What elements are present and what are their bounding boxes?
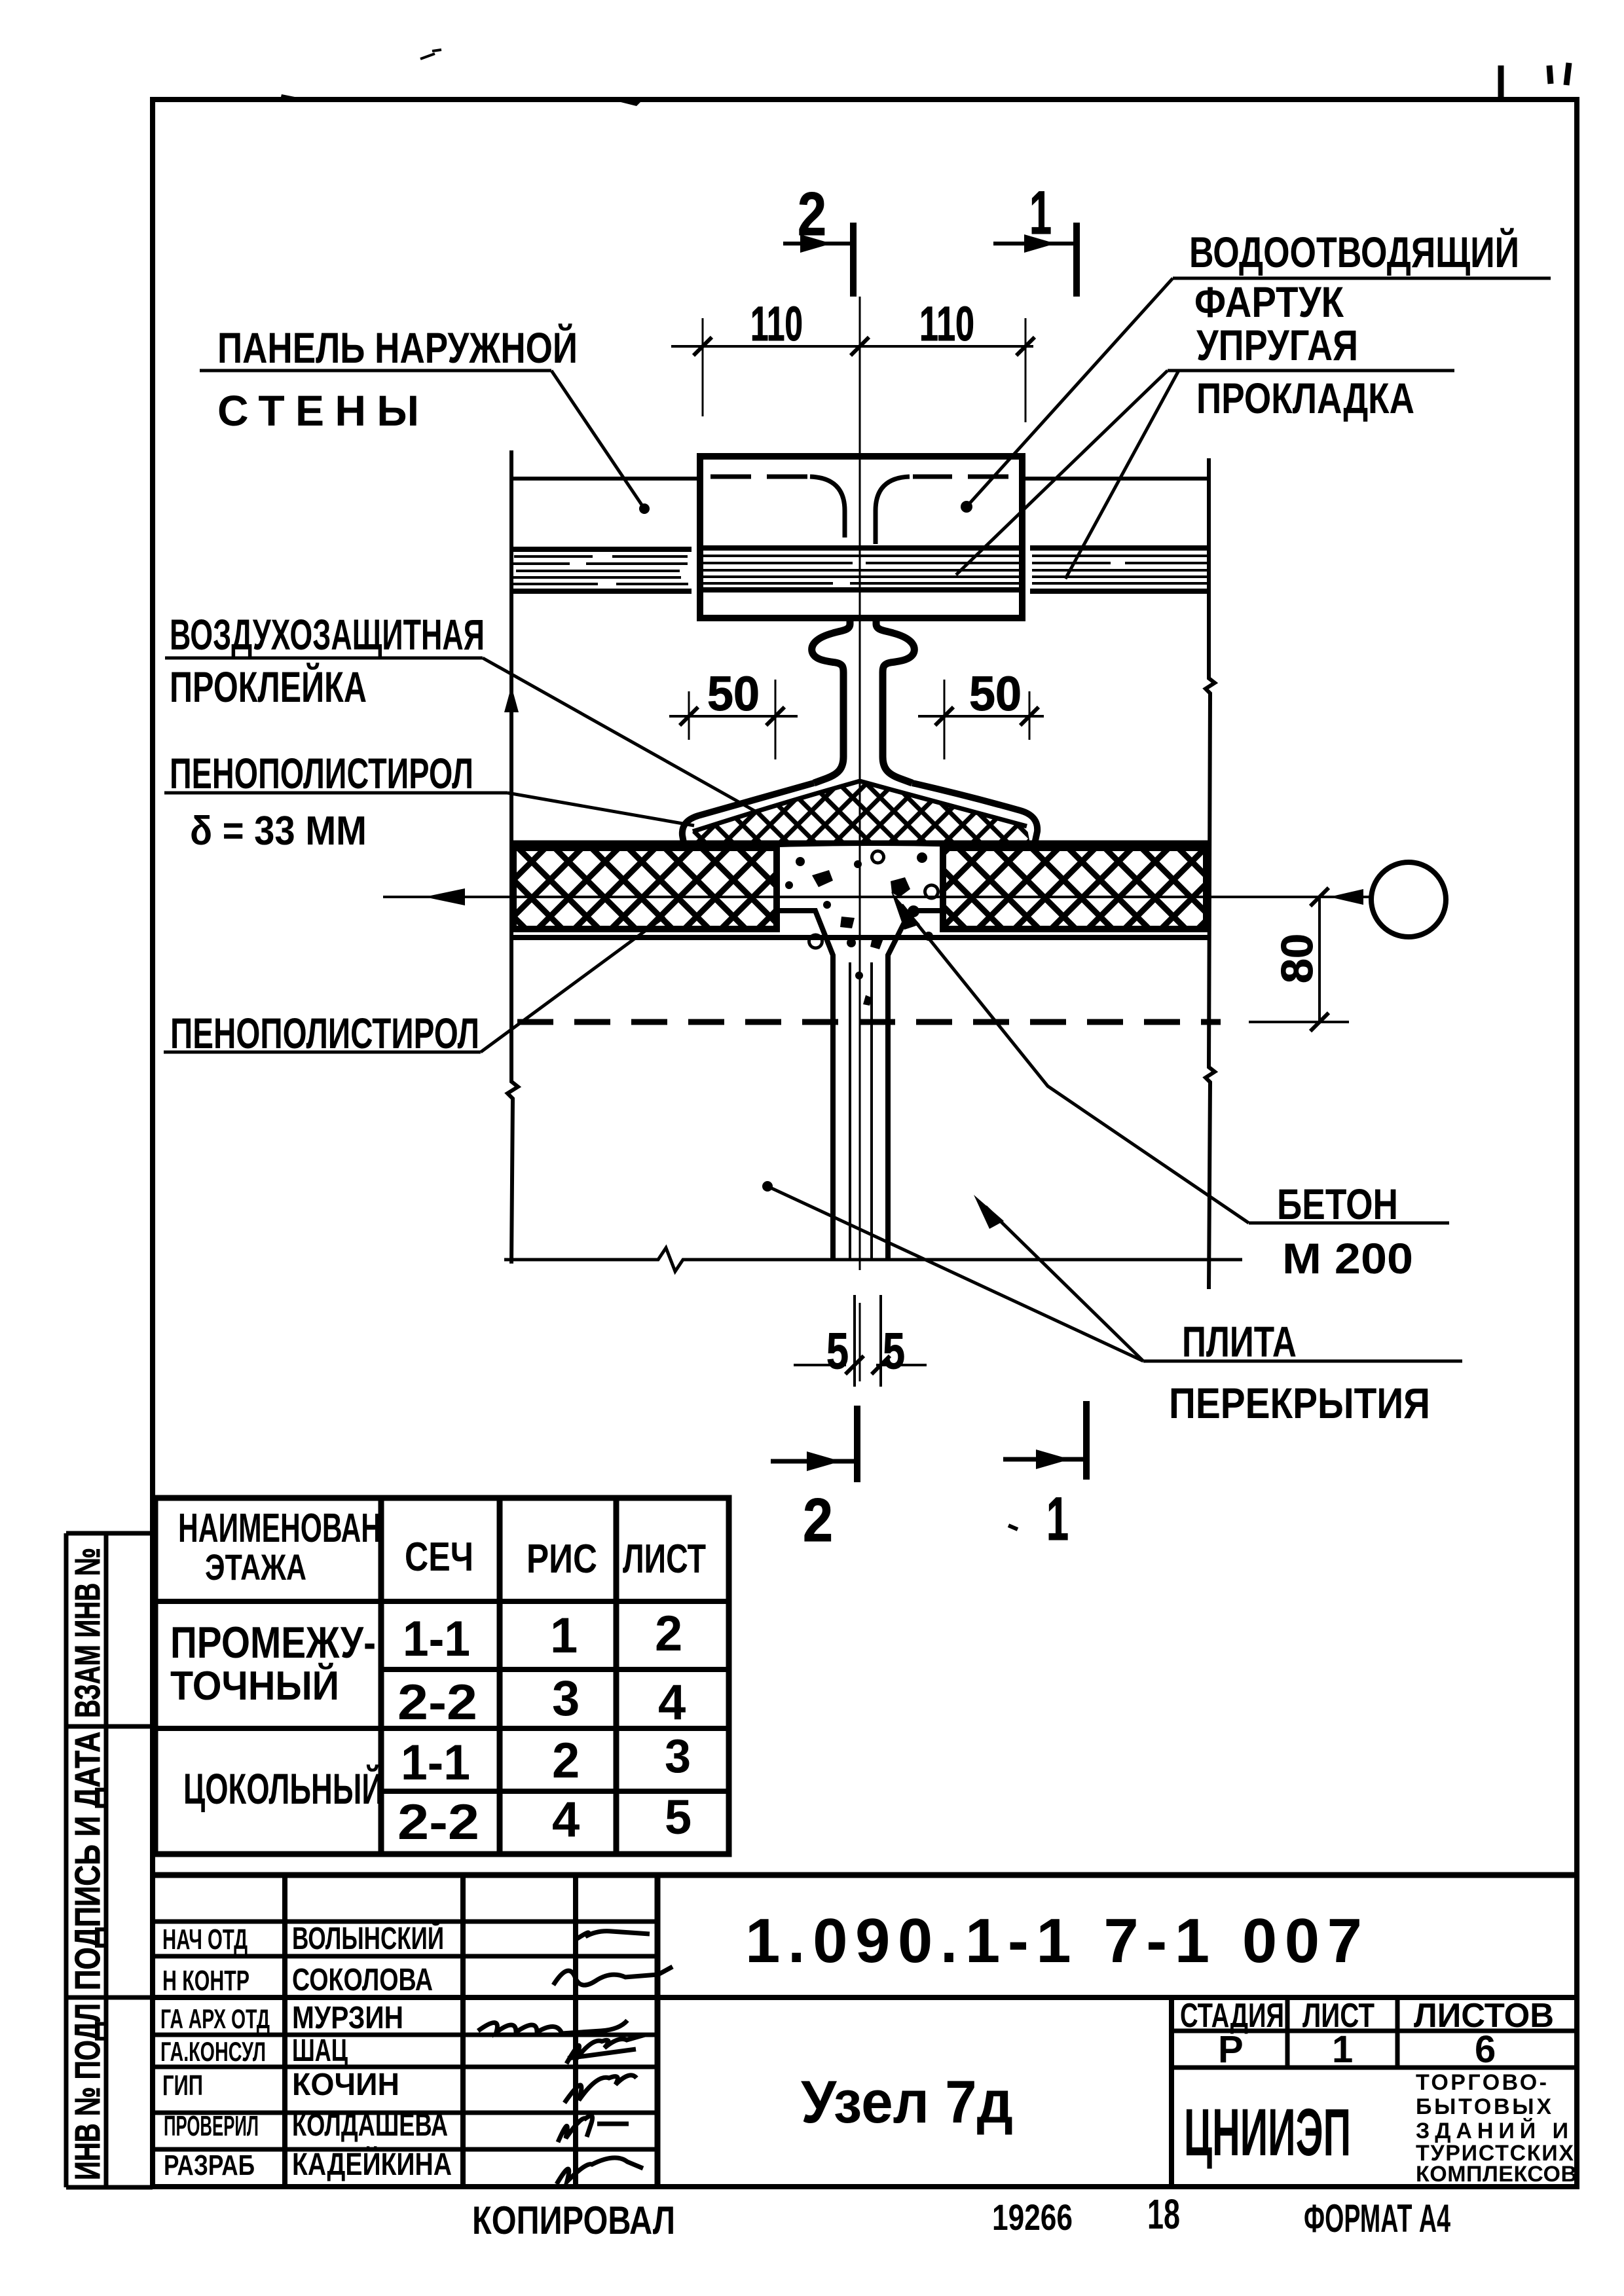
svg-text:3: 3 — [665, 1730, 691, 1783]
section mark 1 bottom — [1083, 1401, 1090, 1480]
svg-text:2: 2 — [803, 1485, 833, 1554]
signatures — [478, 1931, 673, 2184]
svg-text:1-1: 1-1 — [401, 1735, 470, 1791]
svg-text:50: 50 — [707, 666, 760, 721]
label: упругая прокладка — [956, 321, 1454, 579]
label: водоотводящий фартук — [961, 227, 1551, 513]
insulation band bottom line — [511, 935, 1209, 940]
small arrow on panel edge — [504, 686, 519, 712]
svg-text:КОМПЛЕКСОВ: КОМПЛЕКСОВ — [1416, 2162, 1577, 2187]
svg-text:ЦОКОЛЬНЫЙ: ЦОКОЛЬНЫЙ — [183, 1764, 383, 1813]
svg-text:ВОДООТВОДЯЩИЙ: ВОДООТВОДЯЩИЙ — [1189, 227, 1519, 276]
concrete funnel right — [888, 911, 943, 1260]
polystyrene wedge hatched body — [688, 781, 1031, 848]
svg-text:2-2: 2-2 — [397, 1795, 479, 1850]
svg-text:ФОРМАТ А4: ФОРМАТ А4 — [1304, 2196, 1450, 2240]
svg-text:4: 4 — [658, 1675, 686, 1730]
reference circle — [1371, 862, 1446, 937]
table — [155, 1498, 729, 1854]
section mark 2 top — [850, 223, 857, 297]
svg-text:ПОДПИСЬ И ДАТА: ПОДПИСЬ И ДАТА — [68, 1732, 107, 1990]
water apron box — [700, 456, 1022, 618]
top line of wall panels — [511, 477, 700, 481]
sealing gland bulb and stem — [812, 619, 850, 783]
svg-text:18: 18 — [1147, 2191, 1180, 2238]
title block outer top line — [153, 1872, 1577, 1878]
ink blotch on top border — [216, 94, 301, 102]
svg-text:Узел 7д: Узел 7д — [801, 2069, 1013, 2136]
svg-text:ВЗАМ ИНВ №: ВЗАМ ИНВ № — [68, 1548, 107, 1718]
apron fold J-curve left — [810, 477, 845, 538]
svg-text:110: 110 — [919, 297, 974, 351]
air-seal sheet inner line — [693, 781, 1027, 831]
hidden slab dashed line — [517, 1019, 1221, 1025]
svg-text:ПРОВЕРИЛ: ПРОВЕРИЛ — [164, 2110, 259, 2142]
concrete funnel left — [777, 911, 833, 1260]
svg-text:1: 1 — [550, 1608, 578, 1664]
svg-text:ТОЧНЫЙ: ТОЧНЫЙ — [170, 1663, 339, 1709]
wall panel right edge — [1206, 458, 1215, 1289]
right polystyrene block — [943, 848, 1206, 929]
elastic gasket band middle segment — [700, 548, 1022, 590]
svg-text:РАЗРАБ: РАЗРАБ — [164, 2149, 255, 2181]
left polystyrene block — [513, 848, 777, 929]
svg-text:ГИП: ГИП — [162, 2069, 203, 2102]
svg-text:БЫТОВЫХ: БЫТОВЫХ — [1416, 2094, 1551, 2119]
svg-text:1: 1 — [1029, 178, 1052, 247]
svg-text:РИС: РИС — [526, 1537, 597, 1582]
svg-text:1-1: 1-1 — [403, 1611, 470, 1667]
svg-text:НАИМЕНОВАН: НАИМЕНОВАН — [178, 1506, 381, 1551]
svg-text:1: 1 — [1046, 1484, 1069, 1553]
slab top line with break — [504, 1248, 1242, 1271]
svg-text:3: 3 — [552, 1671, 580, 1726]
svg-text:2-2: 2-2 — [397, 1675, 477, 1730]
handwritten sheet number 17 — [1549, 63, 1569, 85]
svg-text:110: 110 — [750, 297, 803, 351]
svg-text:ГА АРХ ОТД: ГА АРХ ОТД — [160, 2003, 270, 2034]
stage grid — [1169, 1997, 1174, 2187]
wedge bottom line — [688, 843, 1031, 848]
svg-text:ПЕРЕКРЫТИЯ: ПЕРЕКРЫТИЯ — [1169, 1379, 1430, 1427]
label: пенополистирол lower — [164, 917, 665, 1057]
apron fold dashed top line left — [710, 475, 807, 479]
svg-text:НАЧ ОТД: НАЧ ОТД — [162, 1923, 248, 1956]
svg-text:5: 5 — [665, 1790, 692, 1844]
apron fold J-curve right — [876, 477, 910, 544]
svg-text:2: 2 — [552, 1733, 580, 1789]
svg-text:5: 5 — [883, 1322, 905, 1379]
dimension 110 110 — [671, 345, 1033, 348]
svg-text:ЦНИИЭП: ЦНИИЭП — [1184, 2095, 1351, 2170]
svg-text:ШАЦ: ШАЦ — [292, 2033, 348, 2068]
svg-text:6: 6 — [1475, 2028, 1496, 2071]
dimension 50 left — [669, 715, 798, 718]
dimensions and section marks — [669, 178, 1446, 1554]
elastic gasket band right segment — [1030, 548, 1209, 591]
svg-text:ЛИСТ: ЛИСТ — [623, 1537, 706, 1582]
label: панель наружной стены — [200, 323, 650, 514]
svg-text:ПРОКЛАДКА: ПРОКЛАДКА — [1196, 374, 1414, 422]
svg-text:1.090.1-1 7-1 007: 1.090.1-1 7-1 007 — [745, 1906, 1362, 1976]
label: плита перекрытия — [762, 1181, 1462, 1427]
svg-text:ГА.КОНСУЛ: ГА.КОНСУЛ — [160, 2036, 266, 2067]
label: бетон М200 — [891, 892, 1449, 1283]
svg-text:Р: Р — [1218, 2028, 1244, 2071]
joint stem inner lines — [849, 962, 851, 1260]
dimension 50 right — [918, 715, 1044, 718]
svg-text:БЕТОН: БЕТОН — [1277, 1180, 1398, 1228]
svg-text:50: 50 — [969, 666, 1022, 721]
svg-text:4: 4 — [552, 1792, 580, 1848]
svg-text:М 200: М 200 — [1282, 1234, 1413, 1283]
left arrowhead on mid line — [424, 888, 465, 905]
concrete speckles — [785, 851, 946, 1006]
svg-text:ПЛИТА: ПЛИТА — [1182, 1317, 1297, 1366]
svg-text:ПРОКЛЕЙКА: ПРОКЛЕЙКА — [170, 662, 367, 711]
svg-text:ИНВ № ПОДЛ: ИНВ № ПОДЛ — [68, 2003, 107, 2180]
svg-text:ВОЛЫНСКИЙ: ВОЛЫНСКИЙ — [292, 1920, 444, 1956]
label: пенополистирол d=33мм — [164, 749, 694, 854]
svg-text:МУРЗИН: МУРЗИН — [292, 2001, 403, 2035]
svg-text:КАДЕЙКИНА: КАДЕЙКИНА — [292, 2146, 452, 2182]
svg-text:ФАРТУК: ФАРТУК — [1194, 278, 1344, 326]
svg-text:ЭТАЖА: ЭТАЖА — [205, 1546, 306, 1588]
elastic gasket band left segment — [509, 549, 692, 591]
svg-text:2: 2 — [655, 1606, 682, 1662]
wall panel left edge — [507, 450, 518, 1264]
svg-text:УПРУГАЯ: УПРУГАЯ — [1196, 321, 1358, 369]
main border frame — [153, 100, 1577, 2187]
svg-text:СОКОЛОВА: СОКОЛОВА — [292, 1963, 433, 1997]
label: воздухозащитная проклейка — [165, 610, 756, 812]
svg-text:Н КОНТР: Н КОНТР — [162, 1965, 249, 1997]
svg-text:1: 1 — [1332, 2028, 1353, 2071]
pencil mark top — [420, 50, 441, 59]
centre axis line — [859, 297, 861, 1270]
svg-text:ЗДАНИЙ И: ЗДАНИЙ И — [1416, 2118, 1568, 2143]
svg-text:СЕЧ: СЕЧ — [405, 1535, 473, 1580]
svg-text:КОЛДАШЕВА: КОЛДАШЕВА — [292, 2108, 448, 2143]
svg-text:ПРОМЕЖУ-: ПРОМЕЖУ- — [170, 1618, 376, 1667]
air-seal sheet outer line over wedge — [682, 783, 814, 850]
left stamp sidebar columns — [64, 1533, 69, 2187]
section mark 1 top — [1073, 223, 1080, 297]
apron fold dashed top line right — [913, 475, 1008, 479]
svg-text:ПЕНОПОЛИСТИРОЛ: ПЕНОПОЛИСТИРОЛ — [170, 1009, 479, 1057]
svg-text:КОЧИН: КОЧИН — [292, 2068, 399, 2102]
dimension 80 right — [1318, 897, 1321, 1022]
section mark 2 bottom — [854, 1406, 860, 1482]
insulation band mid line with left arrow and right reference line — [383, 896, 1371, 898]
svg-text:2: 2 — [798, 179, 826, 248]
svg-text:80: 80 — [1272, 934, 1322, 983]
svg-text:19266: 19266 — [992, 2196, 1073, 2238]
svg-text:5: 5 — [826, 1322, 849, 1379]
svg-text:КОПИРОВАЛ: КОПИРОВАЛ — [472, 2198, 675, 2242]
titleblock — [153, 1875, 1577, 2242]
name columns vertical lines — [282, 1875, 287, 2187]
svg-text:δ = 33 ММ: δ = 33 ММ — [190, 809, 367, 854]
insulation band top line — [511, 841, 1209, 845]
name rows horizontal lines — [153, 1920, 657, 1924]
svg-text:ВОЗДУХОЗАЩИТНАЯ: ВОЗДУХОЗАЩИТНАЯ — [170, 610, 485, 659]
page number tick top right — [1498, 65, 1504, 100]
svg-text:ПЕНОПОЛИСТИРОЛ: ПЕНОПОЛИСТИРОЛ — [170, 749, 473, 797]
dimension 5 5 bottom — [794, 1364, 846, 1366]
svg-text:ПАНЕЛЬ НАРУЖНОЙ: ПАНЕЛЬ НАРУЖНОЙ — [217, 323, 578, 372]
floor reference table grid — [155, 1498, 729, 1854]
